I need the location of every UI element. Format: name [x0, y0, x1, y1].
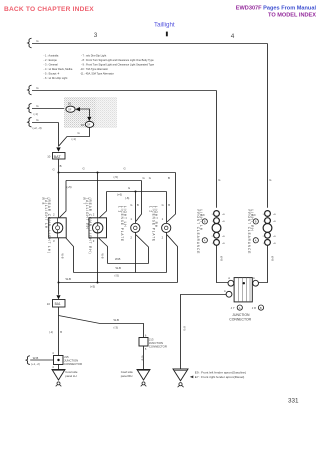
wire diagonal to J13 branch — [59, 316, 144, 338]
ground triangle right (E9/E7) — [173, 369, 188, 381]
svg-text:LIGHT LH: LIGHT LH — [123, 206, 127, 228]
taillight RH bulb box R7 — [89, 218, 107, 238]
svg-text:W-B: W-B — [100, 254, 104, 259]
wire ground license LH — [135, 233, 137, 273]
clearance LH pin circle 1 — [214, 211, 220, 217]
svg-text:W-B: W-B — [66, 277, 72, 281]
terminal circle A bottom-left — [226, 291, 232, 297]
brace harness 1 — [28, 38, 32, 48]
wire brace to J15 — [30, 359, 53, 361]
clearance RH pin circle 3 — [265, 232, 271, 238]
wire rail B left chamfer to taillight LH — [60, 181, 67, 218]
brace harness 4 — [28, 117, 32, 127]
wire rail R2 — [74, 272, 167, 274]
clearance RH callout circle A — [253, 238, 258, 243]
clearance RH pin circle 1 — [265, 211, 271, 217]
J15 box — [54, 356, 64, 365]
node dot bus A taillight RH — [97, 172, 99, 174]
wire filter to split junction — [58, 307, 60, 316]
svg-text:- 1 : Australia: - 1 : Australia — [44, 54, 59, 58]
svg-text:EWD307F Pages From Manual: EWD307F Pages From Manual — [236, 6, 317, 12]
svg-text:W-B: W-B — [116, 266, 122, 270]
svg-text:W-B: W-B — [271, 256, 275, 261]
svg-text:CONNECTOR: CONNECTOR — [149, 345, 167, 349]
node dot inside hatch box — [243, 282, 245, 284]
ground triangle left — [52, 370, 65, 381]
node dot R3 taillight LH — [58, 282, 60, 284]
svg-text:DF: DF — [87, 124, 91, 127]
svg-text:Taillight: Taillight — [154, 22, 175, 29]
clearance LH bulb circle — [212, 224, 221, 233]
wire rail C left chamfer to taillight RH — [99, 192, 107, 219]
J13 box — [139, 338, 148, 347]
wire feed taillight LH — [58, 173, 60, 218]
terminal circle A top-right — [253, 280, 259, 286]
svg-text:CONNECTOR: CONNECTOR — [229, 318, 251, 322]
clearance LH pin circle 3 — [214, 232, 220, 238]
svg-text:G: G — [269, 178, 271, 182]
svg-text:-10 : 70A Type Alternator: -10 : 70A Type Alternator — [80, 67, 108, 71]
wire bus A corner down to license RH (diag feed) — [167, 173, 176, 223]
svg-text:10: 10 — [81, 123, 85, 127]
arrow into filter box — [56, 295, 60, 299]
svg-text:(REAR COMB. LIGHT LH): (REAR COMB. LIGHT LH) — [47, 198, 51, 254]
svg-text:W-B: W-B — [183, 326, 186, 331]
arrow down into circle 2 — [87, 117, 91, 121]
svg-text:G: G — [143, 176, 145, 180]
arrow into battery box — [56, 147, 60, 151]
wire bus4 corner down to battery — [58, 123, 60, 147]
svg-text:B: B — [260, 306, 262, 310]
svg-text:LIGHT RH: LIGHT RH — [154, 206, 158, 228]
wire bus2 drop to front clearance LH — [216, 91, 218, 208]
svg-text:G: G — [78, 131, 80, 135]
svg-text:panel LH: panel LH — [65, 374, 76, 378]
svg-text:BACK TO CHAPTER INDEX: BACK TO CHAPTER INDEX — [4, 6, 94, 13]
wire rail B — [66, 180, 142, 182]
terminal circle A top-left — [228, 280, 234, 286]
svg-text:20: 20 — [68, 102, 72, 106]
stipple shaded area (charging block) — [64, 97, 117, 128]
svg-text:G: G — [124, 167, 126, 171]
svg-text:W-B: W-B — [33, 356, 39, 360]
wire J15 to ground triangle — [58, 365, 60, 370]
fusible link circle 2 — [85, 121, 93, 127]
svg-text:E7 : Front right fender apron(: E7 : Front right fender apron(Diesel) — [195, 375, 245, 379]
wire bus1 — [32, 43, 268, 45]
svg-text:B: B — [60, 330, 62, 334]
taillight LH bulb box R8 — [49, 218, 66, 238]
svg-text:A: A — [204, 239, 206, 243]
svg-text:BAT: BAT — [54, 155, 62, 159]
wire circle2 to main vertical — [59, 127, 90, 146]
svg-text:G: G — [218, 178, 220, 182]
svg-text:(+2, -3): (+2, -3) — [33, 126, 42, 130]
wire rail R3 ground bus — [59, 282, 178, 284]
svg-text:(-1): (-1) — [49, 330, 53, 334]
wire rail B right drop to license LH — [136, 181, 142, 222]
node dot inside J15 — [57, 359, 59, 361]
ground bolt mark middle — [141, 382, 147, 386]
clearance LH pin circle 4 — [214, 240, 220, 246]
svg-text:(+5): (+5) — [67, 185, 72, 189]
svg-text:LIGHT RH: LIGHT RH — [250, 210, 254, 232]
node dot bus A taillight LH — [58, 172, 60, 174]
svg-text:G: G — [149, 176, 151, 180]
wire bus A — [59, 172, 176, 174]
svg-text:B: B — [137, 203, 139, 207]
svg-text:W-B: W-B — [220, 256, 224, 261]
svg-text:- 3 : General: - 3 : General — [44, 63, 59, 67]
svg-text:(REAR COMB. LIGHT RH): (REAR COMB. LIGHT RH) — [88, 198, 92, 255]
svg-text:G: G — [130, 203, 132, 207]
svg-text:(-5): (-5) — [114, 175, 118, 179]
fusible link circle 1 — [66, 106, 75, 112]
svg-text:(-1): (-1) — [34, 112, 38, 116]
svg-text:A: A — [224, 289, 226, 293]
svg-text:W-B: W-B — [140, 356, 144, 361]
svg-text:(-6): (-6) — [125, 196, 129, 200]
svg-text:- 7 : w/o Dim-Dip Light: - 7 : w/o Dim-Dip Light — [81, 54, 106, 58]
wire left branch down to J15 — [58, 316, 60, 356]
clearance LH callout circle A — [202, 238, 207, 243]
wire ground taillight RH — [97, 238, 99, 283]
clearance RH pin circle 4 — [265, 240, 271, 246]
ground bolt mark left — [56, 382, 62, 386]
svg-text:3: 3 — [94, 32, 98, 39]
front clearance light RH cluster — [253, 211, 272, 246]
node dot rail C license LH — [135, 191, 137, 193]
arrow into circle 1 — [75, 107, 80, 111]
svg-text:(+6): (+6) — [117, 193, 122, 197]
svg-text:W-B: W-B — [114, 318, 120, 322]
svg-text:J 8: J 8 — [252, 306, 256, 310]
ground triangle middle — [137, 370, 150, 381]
svg-text:G: G — [162, 203, 164, 207]
front clearance light LH cluster — [202, 211, 221, 246]
junction connector terminals and hatch box — [226, 278, 258, 302]
svg-text:10: 10 — [47, 302, 51, 306]
wire feed license LH — [135, 192, 137, 224]
clearance RH callout circle B — [253, 219, 258, 224]
arrow pointing to right ground — [190, 376, 194, 379]
battery box BAT — [53, 153, 66, 160]
svg-text:BA1: BA1 — [55, 302, 61, 306]
svg-text:(+5): (+5) — [90, 285, 95, 289]
svg-text:LIGHT LH: LIGHT LH — [199, 210, 203, 232]
clearance LH pin circle 2 — [214, 218, 220, 224]
svg-text:E9 : Front left fender apron(G: E9 : Front left fender apron(Gasoline) — [195, 370, 246, 374]
svg-text:DF: DF — [68, 108, 72, 111]
legend list right column — [80, 54, 155, 76]
svg-text:(-1): (-1) — [72, 137, 76, 141]
wire taillight LH stub to rail R2 — [66, 238, 74, 273]
license plate RH bulb circle — [162, 223, 171, 232]
svg-text:A: A — [228, 276, 230, 280]
clearance LH callout circle B — [202, 219, 207, 224]
wire license RH stub to rail R3 — [167, 235, 178, 283]
taillight RH bulb circle — [93, 223, 103, 233]
svg-text:(-5): (-5) — [115, 273, 119, 277]
clearance RH bulb circle — [263, 224, 272, 233]
ground bolt mark right — [178, 383, 184, 388]
svg-text:A: A — [255, 239, 257, 243]
svg-text:JUNCTION: JUNCTION — [232, 313, 250, 317]
wire taillight RH stub to rail R1 — [99, 238, 108, 264]
wire license LH stub to rail R1 — [136, 235, 149, 264]
node dot R3 taillight RH — [97, 282, 99, 284]
clearance RH pin circle 2 — [265, 218, 271, 224]
brace harness 2 — [28, 85, 32, 95]
wire from arrow to corner — [80, 109, 90, 117]
wire rail C right drop to license RH — [166, 192, 168, 224]
wire bus4 — [32, 122, 59, 124]
license plate LH bulb circle — [131, 223, 140, 232]
svg-text:- 2 : Europe: - 2 : Europe — [44, 58, 58, 62]
wire ground license RH — [166, 233, 168, 273]
svg-text:G: G — [53, 168, 55, 172]
svg-text:TO MODEL INDEX: TO MODEL INDEX — [268, 13, 316, 19]
tick mark under title — [166, 32, 168, 37]
svg-text:W-B: W-B — [115, 257, 121, 261]
svg-text:B: B — [168, 176, 170, 180]
brace harness 3 — [28, 103, 32, 113]
svg-text:J 7: J 7 — [231, 306, 235, 310]
svg-text:(-3): (-3) — [114, 326, 118, 330]
svg-text:A: A — [253, 276, 255, 280]
svg-text:- 6 : w/ Dim-Dip Light: - 6 : w/ Dim-Dip Light — [44, 76, 68, 80]
wire bus2 — [32, 90, 217, 92]
junction connector hatch box — [234, 278, 252, 302]
svg-text:G: G — [128, 186, 130, 190]
svg-text:- 8 : Front Turn Signal Light: - 8 : Front Turn Signal Light and Cleara… — [81, 58, 154, 62]
wire battery to bus A — [58, 159, 60, 173]
svg-text:10: 10 — [47, 155, 51, 159]
wire ground bus to filter box — [58, 283, 60, 295]
brace and W-B (+1,-2) — [26, 356, 30, 365]
svg-text:W-B: W-B — [61, 254, 65, 259]
svg-text:- 9 : Front Turn Signal Light: - 9 : Front Turn Signal Light and Cleara… — [81, 63, 155, 67]
svg-text:331: 331 — [288, 398, 299, 405]
svg-text:panel RH: panel RH — [121, 374, 133, 378]
wire bottom terminal to ground E — [181, 295, 227, 370]
svg-text:(+1, -2): (+1, -2) — [31, 362, 40, 366]
svg-text:A: A — [239, 306, 241, 310]
wire bus3 to alternator circle — [32, 108, 66, 110]
wire ground taillight LH — [58, 238, 60, 283]
taillight LH bulb circle — [52, 223, 62, 233]
svg-text:B: B — [168, 203, 170, 207]
wire rail C — [107, 191, 167, 193]
wire clearance RH bottom — [259, 245, 268, 282]
wire rail R1 — [108, 263, 149, 265]
wire bus1 drop to front clearance RH — [267, 44, 269, 208]
svg-text:B: B — [60, 164, 62, 168]
legend list left column — [44, 54, 73, 81]
svg-text:- 5 : Except -4: - 5 : Except -4 — [44, 72, 60, 76]
svg-text:- 4 : w/ Rear Deck, Melba: - 4 : w/ Rear Deck, Melba — [44, 67, 73, 71]
J13 junction connector (middle) — [139, 338, 148, 347]
wire clearance LH bottom — [217, 245, 229, 282]
svg-text:CONNECTOR: CONNECTOR — [64, 362, 82, 366]
svg-text:4: 4 — [231, 33, 235, 40]
svg-text:G: G — [83, 167, 85, 171]
wire J13 to ground triangle — [143, 346, 145, 370]
svg-text:-11 : 45A, 50A Type Alternator: -11 : 45A, 50A Type Alternator — [80, 72, 114, 76]
wire feed taillight RH — [97, 173, 99, 219]
filter box BA1 — [53, 300, 66, 308]
J15 junction connector (left) — [54, 356, 64, 365]
